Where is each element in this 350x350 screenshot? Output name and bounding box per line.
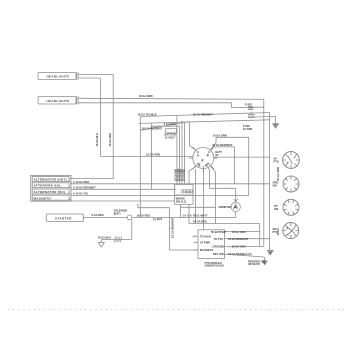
svg-text:18 GA BRN: 18 GA BRN [180,168,183,181]
svg-text:A 16 GA YEL: A 16 GA YEL [73,192,89,196]
svg-text:(IN SEAT): (IN SEAT) [248,262,260,266]
svg-text:18 GA GRN: 18 GA GRN [146,153,160,157]
svg-text:ALTERNATOR (DC): ALTERNATOR (DC) [34,190,66,194]
svg-text:16 GA RED: 16 GA RED [137,213,151,217]
svg-text:(BAT): (BAT) [114,211,121,215]
svg-text:6 GA RED: 6 GA RED [164,122,176,126]
svg-text:18 GA ORN: 18 GA ORN [177,168,180,181]
svg-text:STARTER: STARTER [55,217,72,221]
svg-text:18 GA RED/BLK (2): 18 GA RED/BLK (2) [228,252,252,256]
svg-text:20 AMP: 20 AMP [243,127,253,131]
svg-text:18 GA ORN: 18 GA ORN [276,167,280,181]
svg-text:M: M [206,165,208,167]
svg-text:18 GA RED: 18 GA RED [193,220,207,224]
svg-text:MAGNETO: MAGNETO [34,196,52,200]
svg-text:SW: SW [274,207,279,211]
svg-text:HEADLIGHTS: HEADLIGHTS [47,75,70,79]
svg-text:ALTERNATOR (HOT): ALTERNATOR (HOT) [34,178,67,182]
svg-text:18 GA YEL/BLK: 18 GA YEL/BLK [138,113,157,117]
svg-text:18 GA BLK: 18 GA BLK [98,236,112,240]
svg-text:(UNDER DASH): (UNDER DASH) [205,264,224,268]
svg-text:SW: SW [273,184,278,188]
svg-text:A 16 GA RED: A 16 GA RED [73,180,89,184]
svg-text:A: A [234,205,237,210]
svg-text:F-BUSS: F-BUSS [183,190,192,193]
svg-text:18 GA RED: 18 GA RED [108,133,112,147]
svg-text:18 GA: 18 GA [276,228,280,236]
svg-text:18 GA RED: 18 GA RED [182,169,185,181]
svg-text:SW. N.O.: SW. N.O. [176,199,187,203]
svg-text:TO HIGH: TO HIGH [200,234,211,238]
svg-text:PTO: PTO [274,160,279,164]
svg-text:ST.: ST. [215,153,219,157]
svg-text:A 16 GA RED/WHT: A 16 GA RED/WHT [73,185,96,189]
svg-text:18 GA PUR: 18 GA PUR [175,169,178,181]
svg-text:6 GA RED: 6 GA RED [92,213,104,217]
svg-text:__ 18 GA GRN: __ 18 GA GRN [227,245,246,249]
svg-text:AMMETER: AMMETER [218,205,231,209]
svg-text:FUSE: FUSE [245,103,252,107]
svg-text:AT PWR: AT PWR [200,240,210,244]
svg-text:TO PTO: TO PTO [214,237,224,241]
svg-text:__ 18 GA GRN: __ 18 GA GRN [227,230,246,234]
svg-text:(+) BAT: (+) BAT [153,217,163,221]
svg-text:HEADLIGHTS: HEADLIGHTS [47,99,70,103]
svg-text:18 GA ORN: 18 GA ORN [213,134,227,138]
svg-text:18 GA RED/WHT: 18 GA RED/WHT [228,237,249,241]
svg-text:REV. SW: REV. SW [213,252,224,256]
svg-text:18 GA RED/WHT: 18 GA RED/WHT [170,217,174,238]
svg-text:12 VOLT: 12 VOLT [165,135,176,139]
svg-text:18 GA RED/WHT: 18 GA RED/WHT [183,213,208,217]
svg-text:18 GA BLK: 18 GA BLK [95,133,99,147]
svg-text:18 GA RED/WHT: 18 GA RED/WHT [142,126,163,130]
svg-text:18 GA RED/WHT: 18 GA RED/WHT [193,113,214,117]
svg-text:AFTERFIRE SOL.: AFTERFIRE SOL. [34,184,63,188]
svg-text:18 GA RED/WHT: 18 GA RED/WHT [212,143,233,147]
svg-text:TO BATTERY: TO BATTERY [211,230,228,234]
svg-text:GROUND: GROUND [213,245,225,249]
svg-text:18 GA BRN: 18 GA BRN [139,94,153,98]
svg-text:MAGNETO: MAGNETO [200,248,213,252]
